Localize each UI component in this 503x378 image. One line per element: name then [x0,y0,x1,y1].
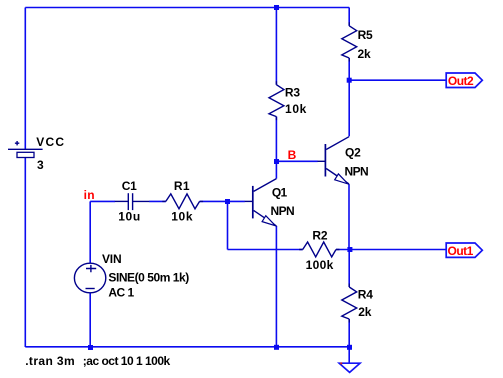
svg-text:C1: C1 [122,179,137,193]
svg-text:;ac oct 10 1 100k: ;ac oct 10 1 100k [83,354,171,368]
svg-text:NPN: NPN [345,164,369,178]
svg-text:100k: 100k [306,258,334,272]
svg-text:VIN: VIN [102,252,121,266]
svg-text:.tran 3m: .tran 3m [25,354,75,368]
svg-text:R1: R1 [174,179,190,193]
svg-text:NPN: NPN [271,204,295,218]
svg-text:10k: 10k [171,209,193,223]
svg-text:R4: R4 [358,288,373,302]
svg-text:R5: R5 [358,28,373,42]
svg-text:10u: 10u [118,209,141,223]
svg-text:R3: R3 [285,86,300,100]
svg-text:Out2: Out2 [448,74,474,88]
svg-text:VCC: VCC [36,135,65,149]
svg-text:Out1: Out1 [448,244,474,258]
svg-text:Q2: Q2 [345,146,361,160]
svg-text:3: 3 [37,158,44,172]
svg-text:10k: 10k [285,102,307,116]
svg-text:B: B [288,148,297,162]
svg-text:AC 1: AC 1 [108,285,134,299]
svg-text:2k: 2k [358,47,371,61]
svg-text:R2: R2 [312,228,327,242]
svg-text:2k: 2k [358,305,371,319]
svg-text:SINE(0 50m 1k): SINE(0 50m 1k) [108,270,189,284]
svg-text:in: in [84,188,95,202]
svg-text:Q1: Q1 [272,185,288,199]
